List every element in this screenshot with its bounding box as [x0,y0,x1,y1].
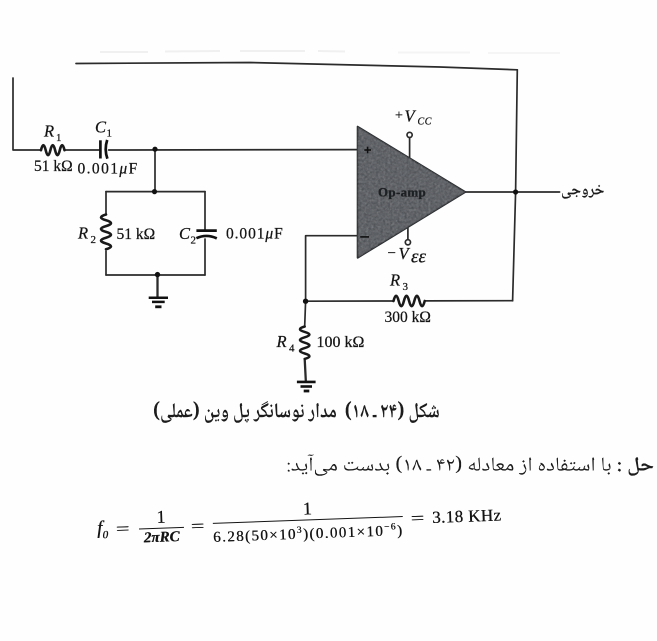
svg-text:CC: CC [418,117,433,128]
svg-text:V: V [405,107,417,126]
svg-text:2: 2 [191,235,197,247]
svg-text:2: 2 [91,234,97,246]
svg-text:εε: εε [411,247,426,268]
svg-text:C: C [179,224,191,243]
svg-text:51 kΩ: 51 kΩ [34,158,73,175]
svg-text:+: + [395,109,403,124]
svg-text:V: V [399,244,411,263]
svg-text:Op-amp: Op-amp [378,185,426,200]
svg-text:0.001μF: 0.001μF [226,226,284,243]
svg-text:−: − [388,246,396,262]
svg-text:3: 3 [403,281,409,293]
svg-text:0.001μF: 0.001μF [78,161,139,178]
svg-text:51 kΩ: 51 kΩ [117,226,156,243]
svg-text:R: R [43,122,54,141]
svg-text:100 kΩ: 100 kΩ [317,334,365,351]
svg-text:R: R [77,224,88,243]
svg-text:4: 4 [289,343,295,355]
svg-text:R: R [276,332,287,351]
svg-text:1: 1 [56,132,62,144]
svg-text:R: R [389,271,400,290]
svg-text:C: C [95,118,107,137]
svg-text:1: 1 [107,128,113,140]
svg-text:300 kΩ: 300 kΩ [385,309,431,326]
